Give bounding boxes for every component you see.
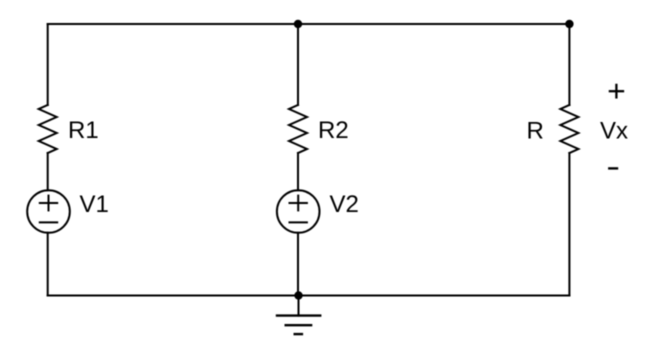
label R2 xyxy=(320,121,348,138)
label V1 xyxy=(80,195,108,212)
wire V1 to bottom xyxy=(47,233,49,296)
label R xyxy=(528,122,542,139)
label V2 xyxy=(330,195,358,212)
voltage source V2 xyxy=(277,190,320,233)
node bottom middle junction xyxy=(294,291,302,299)
wire middle vertical (top node to R2) xyxy=(297,24,299,105)
voltage source V1 xyxy=(27,190,70,233)
wire R2 to V2 xyxy=(297,153,299,190)
wire top horizontal xyxy=(48,23,570,25)
ground xyxy=(298,296,300,316)
node top middle junction xyxy=(294,20,302,28)
resistor R1 xyxy=(39,105,57,153)
wire bottom horizontal xyxy=(48,295,570,297)
resistor R xyxy=(560,105,578,153)
resistor R2 xyxy=(289,105,307,153)
wire left vertical (top node to R1) xyxy=(47,24,49,105)
wire R1 to V1 xyxy=(47,153,49,190)
label R1 xyxy=(70,121,98,138)
wire V2 to bottom xyxy=(297,233,299,296)
wire R to bottom xyxy=(568,153,570,296)
plus sign of Vx xyxy=(610,90,623,92)
node top right junction xyxy=(565,20,573,28)
wire right vertical (top node to R) xyxy=(568,24,570,105)
label Vx xyxy=(600,122,628,139)
minus sign of Vx xyxy=(609,167,617,169)
